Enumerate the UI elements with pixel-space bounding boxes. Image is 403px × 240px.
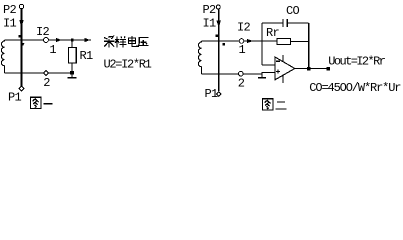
op-amp plus sign (fig2) — [276, 69, 280, 73]
node polarity dot lower (fig1) — [21, 43, 24, 46]
terminal 2 (fig2) — [239, 71, 244, 76]
wire R1 top lead (fig1) — [71, 40, 73, 48]
terminal P2 (fig1) — [19, 4, 23, 8]
terminal 2 (fig1) — [44, 70, 49, 75]
glyph 电 — [129, 36, 138, 46]
wire inverting input (fig2) — [262, 64, 275, 66]
svg-text:CO: CO — [286, 4, 300, 18]
wire non-inverting input (fig2) — [261, 72, 275, 74]
terminal P1 (fig1) — [19, 86, 24, 91]
arrow I2 current direction (fig2) — [247, 39, 254, 43]
wire R1 bottom lead (fig1) — [71, 63, 73, 71]
terminal 1 (fig2) — [239, 39, 244, 44]
resistor R1 (fig1) — [69, 48, 77, 64]
glyph 一 — [44, 103, 53, 105]
inductor secondary winding (fig2) — [198, 41, 201, 74]
svg-text:I2: I2 — [237, 20, 251, 34]
text 采样电压 (fig1) — [104, 36, 149, 47]
op-amp U1 (fig2) — [275, 57, 295, 80]
wire feedback left vertical (fig2) — [261, 23, 263, 65]
svg-text:2: 2 — [238, 76, 245, 90]
svg-text:P2: P2 — [3, 3, 17, 17]
svg-text:P1: P1 — [8, 90, 22, 104]
glyph 样 — [115, 36, 126, 47]
junction R1 bottom (fig1) — [70, 71, 74, 75]
caption 图一 (fig1) — [31, 97, 53, 108]
wire Rr left lead (fig2) — [262, 40, 277, 42]
op-amp negative supply pin (fig2) — [282, 75, 284, 83]
glyph 二 — [276, 102, 287, 109]
caption 图二 (fig2) — [263, 99, 287, 110]
wire primary conductor P2-P1 (fig2) — [218, 9, 220, 91]
svg-text:1: 1 — [49, 43, 56, 57]
arrow output to sampled voltage (fig1) — [85, 38, 91, 42]
arrow I1 current direction (fig1) — [19, 20, 24, 28]
wire feedback right vertical (fig2) — [308, 23, 310, 69]
ground (fig2) — [258, 73, 266, 78]
capacitor C0 (fig2) — [262, 19, 309, 27]
svg-text:I1: I1 — [203, 16, 217, 30]
svg-text:P1: P1 — [205, 87, 219, 101]
svg-text:I2: I2 — [36, 25, 50, 39]
junction feedback-output (fig2) — [307, 67, 311, 71]
op-amp minus sign (fig2) — [276, 60, 280, 62]
glyph 图 — [263, 99, 273, 110]
terminal 1 (fig1) — [44, 38, 49, 43]
node polarity dot upper (fig2) — [216, 35, 218, 37]
wire Rr right lead (fig2) — [291, 40, 309, 42]
inductor secondary winding (fig1) — [1, 40, 4, 73]
wire bottom rail (fig2) — [202, 73, 263, 75]
terminal P2 (fig2) — [216, 5, 220, 9]
terminal output (fig2) — [327, 67, 331, 71]
svg-text:Uout=I2*Rr: Uout=I2*Rr — [328, 55, 385, 69]
wire primary conductor P2-P1 (fig1) — [21, 9, 23, 86]
svg-text:CO=45OO/W*Rr*Ur: CO=45OO/W*Rr*Ur — [309, 81, 401, 95]
node polarity dot lower (fig2) — [223, 43, 225, 45]
glyph 采 — [104, 36, 115, 47]
junction R1 top (fig1) — [71, 39, 74, 42]
glyph 压 — [138, 37, 149, 47]
wire top rail (fig1) — [5, 39, 92, 41]
ground (fig1) — [68, 75, 77, 78]
svg-text:2: 2 — [43, 76, 50, 90]
wire bottom rail (fig1) — [5, 72, 71, 74]
node polarity dot upper (fig1) — [19, 35, 21, 37]
svg-text:P2: P2 — [203, 3, 217, 17]
op-amp positive supply pin (fig2) — [282, 55, 284, 61]
glyph 图 — [31, 97, 41, 108]
wire output (fig2) — [295, 68, 330, 70]
svg-text:1: 1 — [238, 43, 245, 57]
terminal P1 (fig2) — [216, 92, 221, 97]
svg-text:R1: R1 — [80, 49, 94, 63]
wire top rail (fig2) — [202, 40, 263, 42]
arrow I2 current direction (fig1) — [56, 38, 62, 42]
resistor Rr (fig2) — [277, 38, 291, 44]
arrow I1 current direction (fig2) — [216, 20, 221, 28]
svg-text:U2=I2*R1: U2=I2*R1 — [104, 58, 152, 72]
svg-text:I1: I1 — [3, 16, 17, 30]
